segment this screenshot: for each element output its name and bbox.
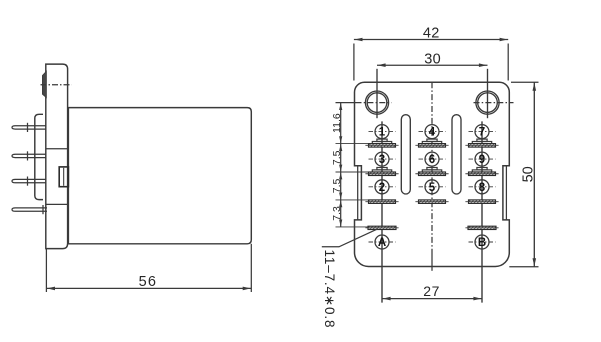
svg-text:1: 1 xyxy=(379,127,386,139)
svg-text:11–7.4∗0.8: 11–7.4∗0.8 xyxy=(322,250,337,329)
svg-text:56: 56 xyxy=(139,274,158,290)
svg-text:9: 9 xyxy=(479,154,485,166)
svg-text:27: 27 xyxy=(423,283,440,299)
svg-text:2: 2 xyxy=(379,182,385,194)
svg-text:30: 30 xyxy=(424,51,441,67)
svg-text:B: B xyxy=(478,237,486,249)
svg-text:8: 8 xyxy=(479,182,486,194)
svg-text:7.5: 7.5 xyxy=(331,178,343,193)
svg-text:11.6: 11.6 xyxy=(331,113,343,133)
svg-text:7: 7 xyxy=(479,127,485,139)
svg-text:7.3: 7.3 xyxy=(331,206,343,221)
svg-text:42: 42 xyxy=(423,25,440,41)
svg-text:A: A xyxy=(378,237,386,249)
svg-text:6: 6 xyxy=(429,154,435,166)
svg-text:7.5: 7.5 xyxy=(331,150,343,165)
svg-text:50: 50 xyxy=(521,166,537,182)
svg-text:4: 4 xyxy=(429,127,436,139)
svg-text:3: 3 xyxy=(379,154,385,166)
svg-text:5: 5 xyxy=(429,182,436,194)
